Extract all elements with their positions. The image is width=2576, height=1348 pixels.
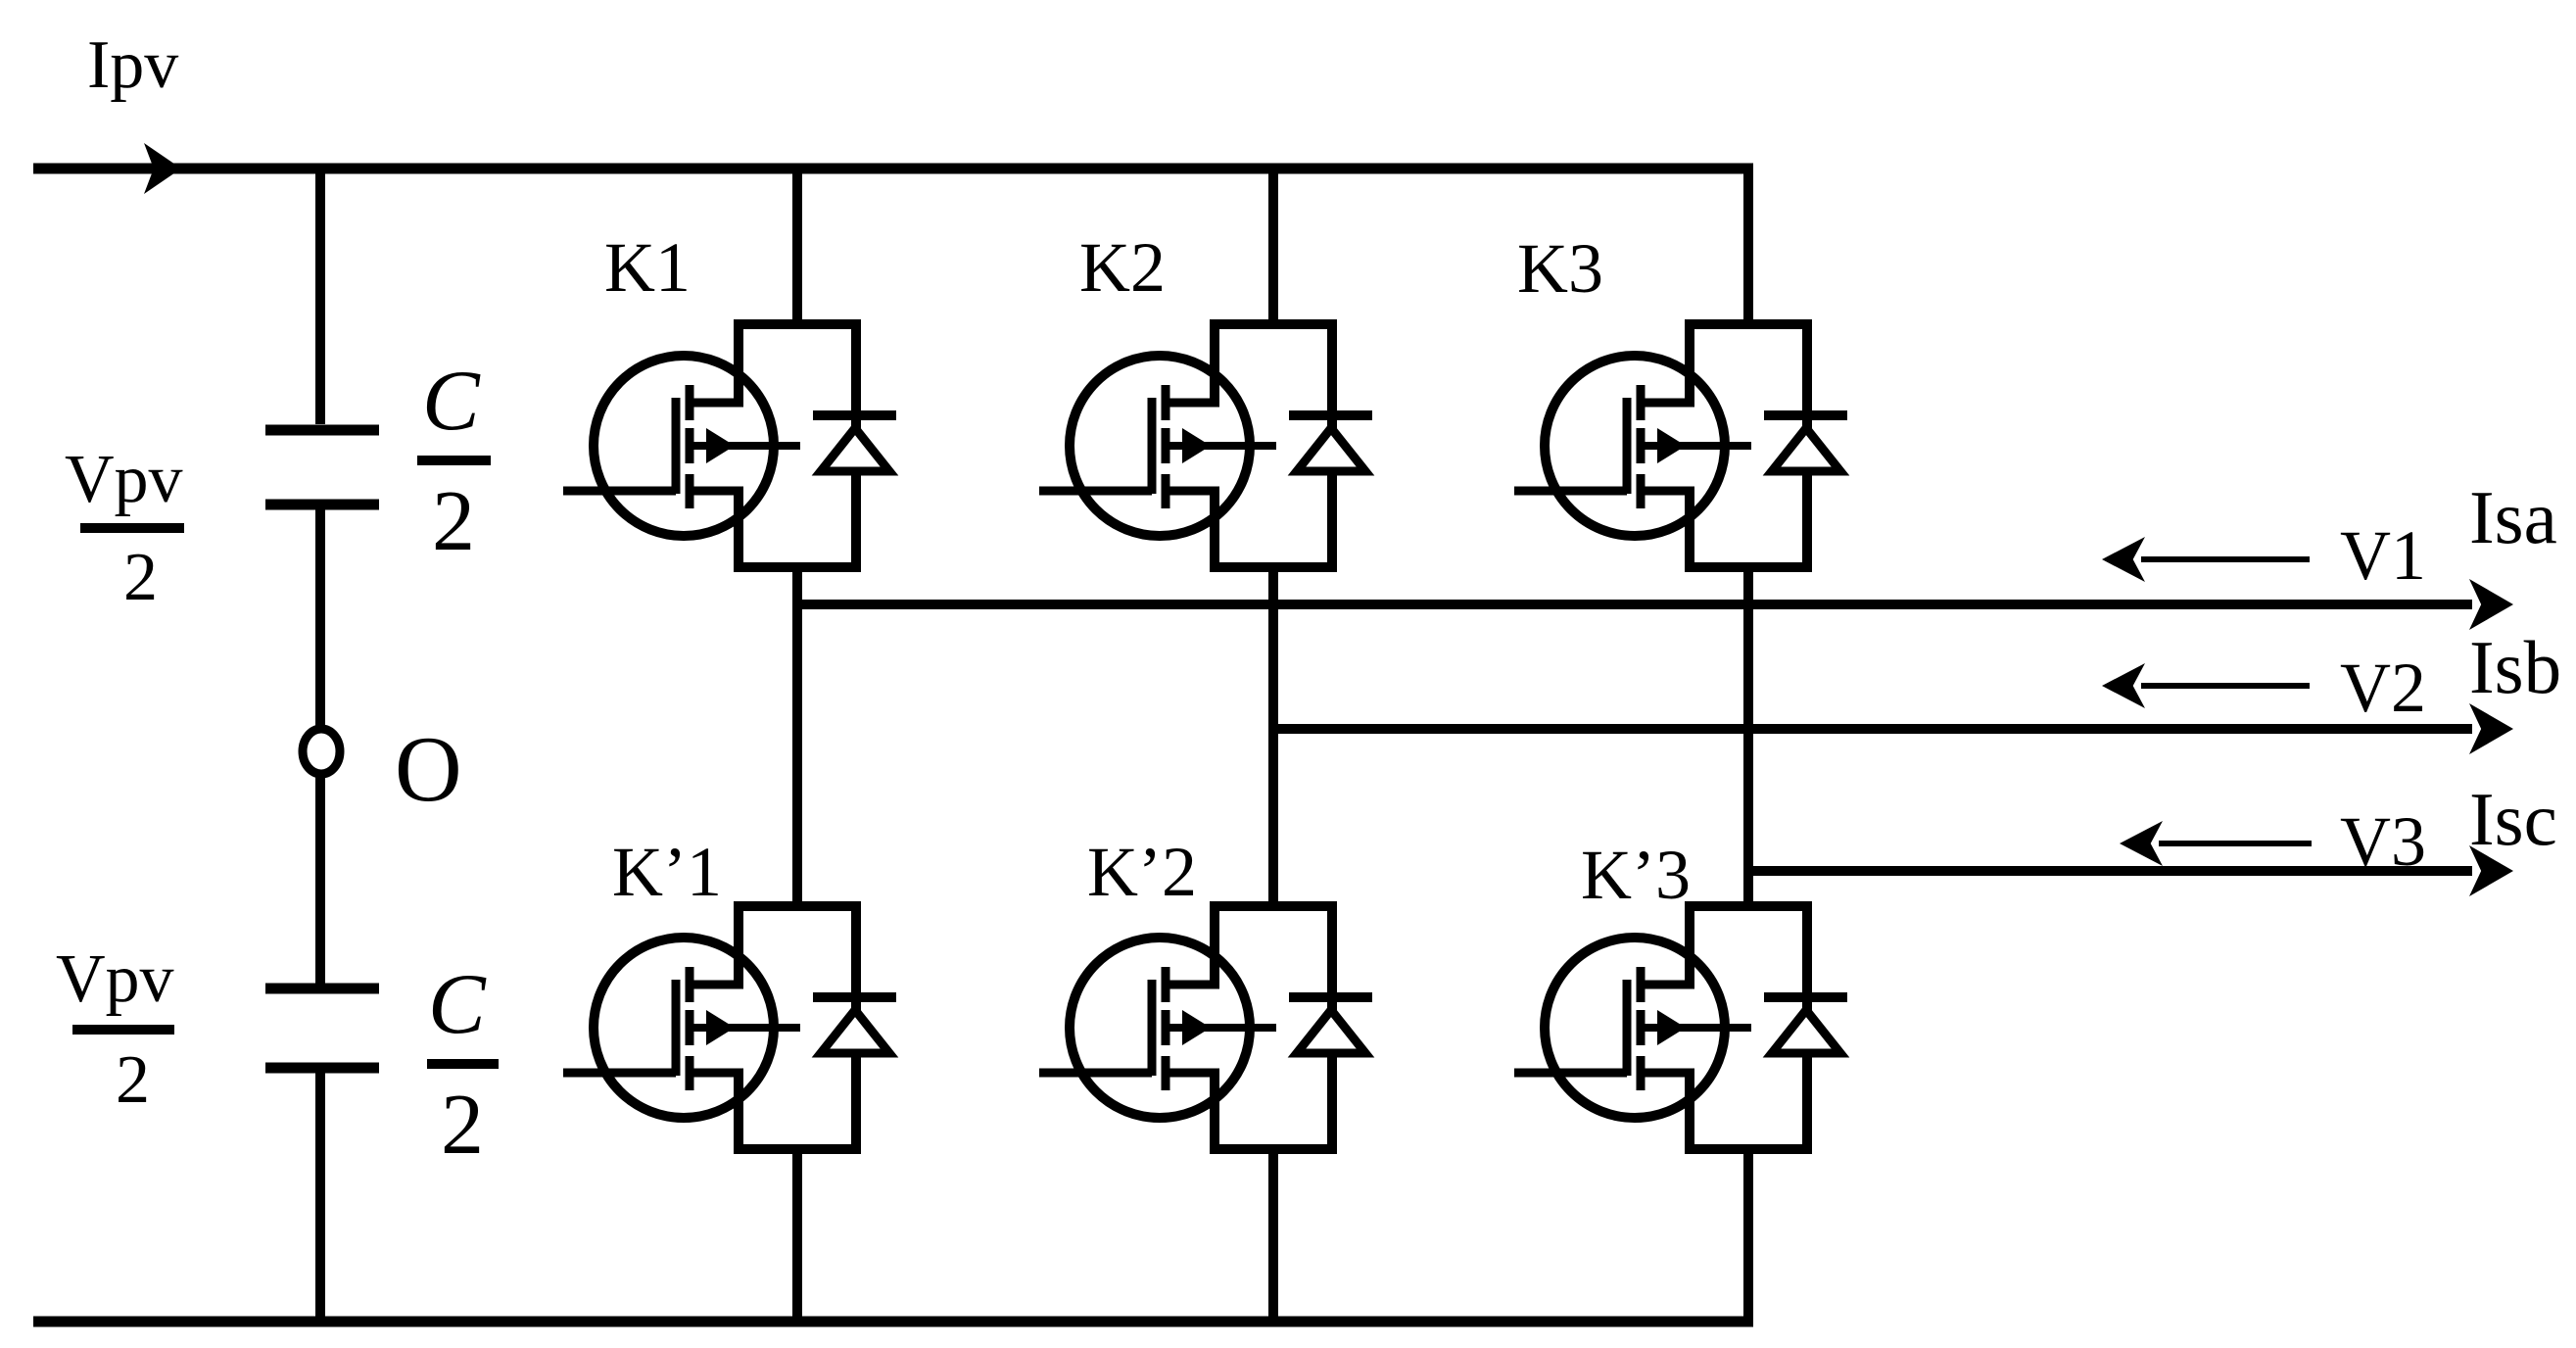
K'1 module box [739,906,856,1149]
K2 MOSFET drain lead [1166,399,1219,408]
K2 MOSFET channel dashes [1162,385,1170,420]
switch K'2: MOSFET with antiparallel diode [1039,906,1372,1149]
svg-text:V2: V2 [2340,649,2426,727]
K2 MOSFET source lead [1166,487,1219,496]
K3 antiparallel diode [1772,428,1840,471]
K'1 MOSFET source lead [690,1069,743,1078]
svg-text:C: C [422,354,481,449]
wire: dc-link from lower capacitor to bottom rail [315,1068,325,1322]
K'2 gate terminal lead [1039,1069,1152,1078]
K'1 MOSFET drain lead [690,981,743,989]
wire: leg 3 midpoint (phase 3) [1743,562,1753,911]
svg-text:Isc: Isc [2469,777,2557,861]
svg-text:V1: V1 [2340,516,2426,595]
K'1 gate terminal lead [563,1069,676,1078]
svg-text:Isb: Isb [2469,625,2561,709]
wire: phase output line V1 [797,600,2472,609]
K'3 MOSFET envelope circle [1545,938,1725,1118]
K'1 antiparallel diode [821,1010,889,1053]
K1 gate terminal lead [563,487,676,496]
K'3 MOSFET channel dashes [1637,967,1646,1002]
switch K3: MOSFET with antiparallel diode [1514,324,1847,567]
capacitor C/2 upper [265,430,379,505]
label C/2 upper [417,354,491,569]
wire: leg 3 bottom stub [1743,1144,1753,1322]
K1 MOSFET envelope circle [594,356,774,536]
wire: leg 3 top stub [1743,168,1753,329]
wire: dc-link from top bus to upper capacitor [315,168,325,424]
K3 MOSFET body lead with source arrow [1643,442,1751,450]
svg-text:C: C [428,957,487,1052]
arrow: current Isc (pointing left) [2120,821,2312,866]
K'2 MOSFET envelope circle [1070,938,1250,1118]
K2 antiparallel diode [1297,428,1365,471]
K'3 MOSFET source lead [1641,1069,1694,1078]
label Vpv/2 lower [56,941,174,1118]
K3 MOSFET source lead [1641,487,1694,496]
wire: phase output line V2 [1273,724,2472,734]
K'2 MOSFET channel dashes [1162,967,1170,1002]
wire: leg 1 bottom stub [792,1144,802,1322]
K'2 MOSFET body lead with source arrow [1168,1024,1276,1032]
K'1 MOSFET body lead with source arrow [692,1024,800,1032]
K3 MOSFET envelope circle [1545,356,1725,536]
svg-text:2: 2 [441,1078,484,1173]
K'3 module box [1690,906,1807,1149]
svg-text:2: 2 [432,474,475,569]
K1 MOSFET gate bar [672,398,681,494]
K2 MOSFET body lead with source arrow [1168,442,1276,450]
switch K'1: MOSFET with antiparallel diode [563,906,896,1149]
svg-text:V3: V3 [2340,802,2426,881]
svg-text:K1: K1 [604,228,691,307]
wire: dc-link between upper capacitor and node O [315,505,325,731]
svg-text:K2: K2 [1079,228,1166,307]
K'2 module box [1215,906,1332,1149]
svg-text:K’3: K’3 [1581,836,1691,914]
K'2 antiparallel diode [1297,1010,1365,1053]
arrow: current Isb (pointing left) [2102,663,2310,708]
wire: leg 2 midpoint (phase 2) [1268,562,1278,911]
K3 module box [1690,324,1807,567]
svg-text:Vpv: Vpv [65,442,183,517]
K2 MOSFET envelope circle [1070,356,1250,536]
K'2 MOSFET drain lead [1166,981,1219,989]
wire: dc-link between node O and lower capacitor [315,772,325,984]
K2 MOSFET gate bar [1148,398,1157,494]
wire: leg 1 top stub [792,168,802,329]
wire: top DC bus [33,164,1753,174]
label C/2 lower [427,957,499,1173]
K1 MOSFET channel dashes [686,385,694,420]
K3 MOSFET drain lead [1641,399,1694,408]
K'3 MOSFET body lead with source arrow [1643,1024,1751,1032]
arrow: current Isa (pointing left) [2102,537,2310,582]
K1 MOSFET body lead with source arrow [692,442,800,450]
arrow: V2 output arrowhead [2469,703,2513,754]
K3 MOSFET channel dashes [1637,385,1646,420]
Ipv current arrow [144,143,181,194]
switch K2: MOSFET with antiparallel diode [1039,324,1372,567]
svg-text:K’1: K’1 [612,833,722,911]
K2 module box [1215,324,1332,567]
K2 gate terminal lead [1039,487,1152,496]
K1 MOSFET source lead [690,487,743,496]
wire: phase output line V3 [1748,866,2472,876]
svg-text:Isa: Isa [2469,475,2557,559]
svg-text:2: 2 [123,540,158,615]
K'1 MOSFET envelope circle [594,938,774,1118]
K'3 gate terminal lead [1514,1069,1627,1078]
svg-text:Vpv: Vpv [56,941,174,1017]
K3 gate terminal lead [1514,487,1627,496]
K'3 MOSFET drain lead [1641,981,1694,989]
wire: leg 2 bottom stub [1268,1144,1278,1322]
switch K1: MOSFET with antiparallel diode [563,324,896,567]
K'3 MOSFET gate bar [1623,980,1632,1076]
K1 antiparallel diode [821,428,889,471]
svg-text:2: 2 [116,1042,150,1118]
K'1 MOSFET channel dashes [686,967,694,1002]
K1 module box [739,324,856,567]
switch K'3: MOSFET with antiparallel diode [1514,906,1847,1149]
K'2 MOSFET source lead [1166,1069,1219,1078]
arrow: V3 output arrowhead [2469,845,2513,896]
capacitor C/2 lower [265,988,379,1068]
wire: bottom DC rail [33,1317,1753,1327]
svg-text:K’2: K’2 [1087,833,1197,911]
svg-text:Ipv: Ipv [87,27,178,103]
K'3 antiparallel diode [1772,1010,1840,1053]
wire: leg 2 top stub [1268,168,1278,329]
svg-text:O: O [395,717,462,821]
arrow: V1 output arrowhead [2469,579,2513,630]
K'2 MOSFET gate bar [1148,980,1157,1076]
K3 MOSFET gate bar [1623,398,1632,494]
K1 MOSFET drain lead [690,399,743,408]
label Vpv/2 upper [65,442,184,615]
K'1 MOSFET gate bar [672,980,681,1076]
svg-text:K3: K3 [1517,229,1603,308]
node O circle [303,729,340,774]
wire: leg 1 midpoint (phase 1) [792,562,802,911]
